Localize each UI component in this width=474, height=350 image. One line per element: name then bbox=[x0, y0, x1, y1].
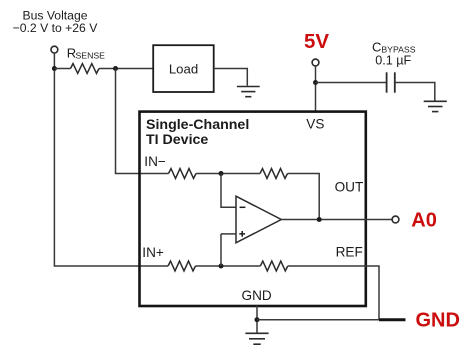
node pin IN- bbox=[144, 154, 166, 169]
svg-text:IN−: IN− bbox=[144, 154, 166, 169]
node 5V supply label bbox=[304, 30, 329, 53]
wire op-amp output to A0 terminal bbox=[281, 219, 392, 221]
capacitor CBYPASS label bbox=[372, 40, 416, 68]
junction IN- node bbox=[219, 171, 224, 176]
op-amp U1 device box bbox=[140, 112, 366, 306]
ground (bypass) bbox=[424, 101, 447, 111]
capacitor CBYPASS bbox=[387, 72, 395, 92]
junction Rsense/IN- node bbox=[113, 66, 118, 71]
svg-text:C: C bbox=[372, 40, 381, 55]
wire 5V node to Cbypass bbox=[316, 82, 387, 84]
wire REF out of device and down to ground rail bbox=[288, 266, 379, 320]
resistor RSENSE label bbox=[67, 46, 105, 61]
wire IN- node down to op-amp inverting input bbox=[221, 174, 236, 208]
wire bus terminal down to IN+ row bbox=[54, 53, 168, 266]
resistor REF bbox=[260, 261, 288, 271]
svg-text:SENSE: SENSE bbox=[76, 51, 106, 61]
wire junction to Rsense bbox=[54, 68, 70, 70]
junction bus/Rsense node bbox=[52, 66, 57, 71]
resistor input IN- bbox=[169, 169, 197, 179]
node pin VS bbox=[306, 117, 324, 132]
svg-text:A0: A0 bbox=[411, 210, 437, 232]
wire IN+ resistor to REF resistor bbox=[196, 265, 261, 267]
svg-text:REF: REF bbox=[336, 245, 363, 260]
svg-text:IN+: IN+ bbox=[142, 245, 164, 260]
node bus input terminal bbox=[51, 46, 58, 53]
wire IN- from Rsense node down and right into device bbox=[116, 69, 169, 174]
wire 5V terminal down to VS pin bbox=[315, 66, 317, 111]
wire feedback resistor to output node bbox=[288, 174, 320, 220]
node pin REF bbox=[336, 245, 363, 260]
resistor RSENSE bbox=[71, 64, 100, 74]
resistor input IN+ bbox=[168, 261, 196, 271]
wire Rsense to Load bbox=[99, 68, 153, 70]
ground (load) bbox=[237, 87, 260, 97]
node pin IN+ bbox=[142, 245, 164, 260]
svg-text:−0.2 V to +26 V: −0.2 V to +26 V bbox=[13, 21, 99, 35]
wire GND pin down to ground bbox=[256, 306, 258, 333]
svg-text:Load: Load bbox=[169, 62, 198, 77]
node device title bbox=[146, 117, 249, 148]
svg-text:5V: 5V bbox=[304, 30, 329, 53]
node GND label bbox=[416, 309, 460, 331]
load box bbox=[153, 45, 214, 92]
node pin OUT bbox=[335, 180, 364, 195]
svg-text:GND: GND bbox=[242, 288, 272, 303]
node A0 label bbox=[411, 210, 437, 232]
svg-text:TI Device: TI Device bbox=[146, 132, 208, 148]
junction IN+ node bbox=[219, 264, 224, 269]
wire GND node to GND rail bbox=[257, 319, 379, 321]
node A0 terminal bbox=[392, 216, 399, 223]
junction GND node bbox=[255, 317, 260, 322]
svg-text:0.1 µF: 0.1 µF bbox=[375, 54, 411, 68]
junction output/feedback node bbox=[317, 217, 322, 222]
wire IN+ node up to op-amp noninverting input bbox=[220, 234, 222, 266]
ground (device GND) bbox=[245, 333, 268, 344]
svg-text:VS: VS bbox=[306, 117, 324, 132]
resistor feedback top bbox=[260, 169, 288, 179]
junction 5V/bypass node bbox=[313, 80, 318, 85]
node 5V terminal bbox=[312, 59, 319, 66]
svg-text:GND: GND bbox=[416, 309, 460, 331]
wire Load to ground bbox=[214, 69, 248, 86]
wire GND rail lead bbox=[379, 318, 406, 321]
node Bus Voltage label bbox=[13, 9, 99, 36]
node pin GND bbox=[242, 288, 272, 303]
wire IN- resistor to junction bbox=[196, 173, 260, 175]
svg-text:Single-Channel: Single-Channel bbox=[146, 117, 249, 133]
wire Cbypass to ground bbox=[395, 83, 435, 101]
svg-text:OUT: OUT bbox=[335, 180, 364, 195]
wire op-amp noninverting input stub bbox=[221, 233, 236, 235]
op-amp A1 bbox=[236, 196, 281, 243]
